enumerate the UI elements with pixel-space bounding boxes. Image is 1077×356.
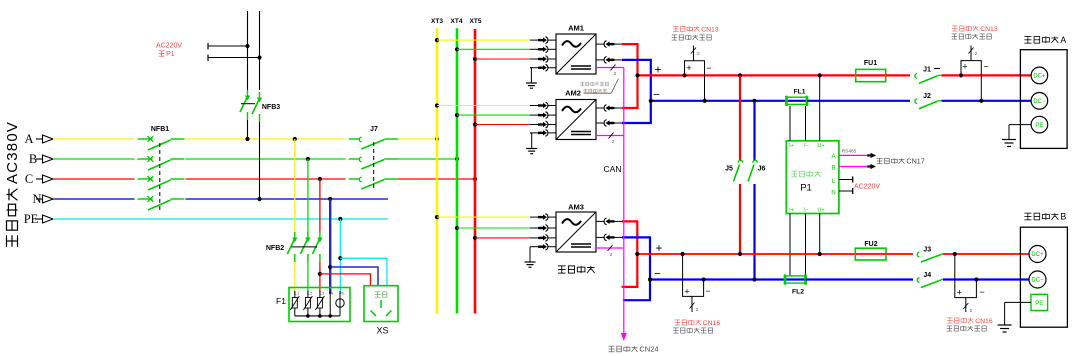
label RS485 [842,149,857,155]
svg-text:NFB1: NFB1 [151,126,169,133]
breaker NFB1 label [151,126,169,133]
gun B DC+ terminal [1029,246,1046,263]
AM2 DC- output connector [596,120,622,127]
DC+ wire J3 to gun B [943,252,1029,256]
surge protector F1 box [289,288,350,322]
svg-text:A: A [831,154,835,160]
contactor J5 [734,75,743,254]
DC- bus B [648,277,806,281]
converter AM2 label [565,89,581,98]
svg-text:+: + [686,63,691,73]
ground gun A [1002,140,1016,147]
label charging modules 充电模块 [558,266,595,273]
wire phase A to J7 [186,138,346,140]
wire RS485 B [839,164,876,169]
svg-text:B: B [831,166,835,172]
svg-text:−: − [706,63,711,73]
converter AM1 label [568,24,584,33]
wire NFB3 left to phase A [245,120,249,141]
svg-text:+: + [962,62,967,72]
breaker NFB1 pole N [138,196,185,210]
wire AM3 red output [622,221,638,287]
breaker NFB2 label [266,245,284,252]
wire phase C input [53,178,135,180]
svg-text:DC+: DC+ [1031,252,1044,258]
breaker NFB2 pole L1 [287,232,297,262]
DC- wire J2 to gun A [942,99,1032,103]
svg-text:NFB2: NFB2 [266,245,284,252]
svg-text:FU1: FU1 [864,60,877,67]
label CAN [604,164,622,174]
svg-text:+: + [957,288,962,298]
svg-text:−: − [705,286,710,296]
wire phase B J7 to XT4 [398,157,459,161]
wire meter U+ bottom [819,214,821,255]
label AC220V to P1 [156,43,182,59]
bus B voltage sense tap [683,254,711,312]
svg-text:XS: XS [376,326,388,336]
svg-text:−: − [979,287,984,297]
DC+ bus A [635,73,855,77]
ground AM3 [525,262,536,267]
wire NFB3 left vertical upper [247,11,249,90]
wire AM1 phase tap 2 [455,46,556,53]
DC- bus A [649,99,807,103]
wire AM3 blue output [622,237,650,300]
AM3 DC- output connector [596,234,622,241]
charging gun B label 充电枪B [1024,212,1066,222]
svg-text:C: C [25,172,33,186]
wire AM3 phase tap 2 [455,225,556,232]
contactor J4 [917,278,943,288]
svg-text:I−: I− [804,208,809,214]
svg-text:+: + [656,243,663,255]
bus A voltage sense tap [685,46,712,101]
wire red branch to XS [320,274,371,286]
F1 neutral lead [329,291,331,316]
svg-text:−: − [654,269,661,281]
contactor J7 pole C [349,177,399,189]
label + bus A [655,65,662,77]
converter AM1 [556,34,596,74]
svg-text:+: + [655,65,662,77]
svg-text:L1: L1 [295,291,300,296]
ground gun B [998,325,1012,332]
svg-text:NFB3: NFB3 [262,104,280,111]
svg-text:FU2: FU2 [864,241,877,248]
contactor J6 [748,101,757,280]
wire AM2 phase tap 1 [435,102,556,109]
svg-text:AM1: AM1 [568,24,584,33]
breaker NFB3 label [262,104,280,111]
gun B PE wire [1005,302,1031,325]
fuse FU1 label [864,60,877,67]
contactor J1 [915,74,942,84]
label to power board CN16 gun B [947,318,993,325]
svg-text:J3: J3 [923,247,931,254]
wire AM2 red output [622,75,638,108]
varistor F1-L2 [303,291,312,316]
breaker NFB1 link [159,143,161,210]
wire neutral N after NFB1 [186,198,389,200]
meter P1 terminals text top [789,143,824,149]
wire phase A input [53,138,135,140]
svg-text:+: + [684,287,689,297]
label AC220V meter [854,184,880,191]
wire yellow NFB2 to F1 [294,262,296,292]
wire meter L terminal [839,177,853,183]
varistor F1-L1 [290,291,299,316]
contactor J2 label [923,93,931,100]
svg-text:CN16: CN16 [703,320,721,327]
svg-text:P1: P1 [800,183,812,194]
wire RS485 A [839,153,876,158]
shunt FL2 [785,274,807,284]
wire blue branch to XS [328,265,378,286]
wire meter I- top [805,106,807,141]
gun B PE terminal [1031,294,1048,310]
AM1 DC+ output connector [596,41,622,48]
svg-text:PE: PE [1035,301,1043,307]
node phase C drop [318,177,322,181]
svg-text:I+: I+ [789,208,794,214]
breaker NFB1 pole A [138,136,185,150]
wire meter U+ top [819,75,821,140]
contactor J3 label [923,247,931,254]
svg-text:DC+: DC+ [1033,74,1046,80]
svg-text:L3: L3 [320,291,325,296]
gun A battery voltage sense tap [961,46,989,101]
meter P1 box [786,141,839,214]
surge protector F1 label [276,296,286,306]
varistor F1-L3 [315,291,324,316]
wire AM1 red output [622,44,638,75]
gun A DC+ terminal [1031,67,1048,84]
svg-text:F1: F1 [276,296,286,306]
svg-text:A: A [24,132,33,146]
shunt FL2 label [792,289,804,296]
converter AM3 [556,212,596,252]
label to master CN17 [877,157,925,166]
contactor J4 label [923,272,931,279]
svg-text:J1: J1 [923,67,931,74]
wire AM1 ground lead [530,64,556,83]
breaker NFB3 pole 1 [240,90,250,120]
svg-text:AC220V: AC220V [854,184,880,191]
DC+ wire FU1 to J1 [886,74,910,76]
breaker NFB2 link [292,246,318,248]
fuse FU2 label [864,241,877,248]
wire AM3 ground lead [530,243,556,262]
svg-text:J4: J4 [923,272,931,279]
contactor J7 label [370,126,378,133]
wire red drop to NFB2 [319,179,321,233]
svg-text:FL2: FL2 [792,289,804,296]
wire AM1 phase tap 3 [473,56,556,63]
gun B DC- terminal [1029,271,1046,288]
wire red NFB2 to F1 [318,262,322,292]
wire AM2 blue output [622,100,651,123]
breaker NFB3 pole 2 [252,92,262,122]
label mains input 市电输入AC380V [4,121,21,247]
wire cyan PE drop [339,219,341,294]
input terminal A [24,132,53,146]
socket XS label 插座 [375,292,387,297]
node PE drop [338,217,342,221]
svg-text:XT5: XT5 [470,18,482,25]
socket XS box [364,286,398,322]
wire yellow drop to NFB2 [294,139,296,233]
svg-text:N: N [331,291,334,296]
breaker NFB1 pole B [138,156,185,170]
wire meter I+ top [789,106,791,141]
fuse FU1 [856,69,886,81]
contactor J2 [915,99,942,109]
svg-text:N: N [831,191,835,197]
label to power board CN13 gun A [952,26,998,33]
input terminal N [32,192,53,206]
wire neutral N input [53,198,135,200]
label to power board CN13 bus A [673,26,719,33]
wire AM2 phase tap 2 [455,112,556,119]
svg-text:RS485: RS485 [842,149,857,155]
label to power board CN16 bus B [675,320,721,327]
svg-text:J2: J2 [923,93,931,100]
converter AM2 [556,100,596,140]
contactor J7 pole A [349,137,399,149]
F1 common bar [295,314,340,318]
gun A DC- terminal [1031,93,1048,110]
svg-text:CAN: CAN [604,164,622,174]
svg-text:J6: J6 [758,166,766,173]
ground AM1 [526,83,537,88]
wire AM1 CAN [596,65,624,77]
AM2 DC+ output connector [596,105,622,112]
svg-text:P1: P1 [166,51,175,58]
label + bus B [656,243,663,255]
wire AM1 phase tap 1 [435,37,556,44]
svg-text:I+: I+ [789,143,794,149]
DC- wire FL1 to J2 [807,100,910,102]
svg-text:AC380V: AC380V [4,121,21,184]
breaker NFB3 link [241,103,255,105]
bus labels XT3 XT4 XT5 [431,18,482,25]
node neutral drop [328,197,332,201]
contactor J3 [917,252,943,262]
wire green NFB2 to F1 [307,262,309,292]
input terminal PE [24,212,53,226]
bus XT4 green [456,28,459,313]
converter AM3 label [568,203,584,212]
breaker NFB2 pole L2 [300,232,310,262]
contactor J7 pole B [349,157,399,169]
socket XS name [376,326,388,336]
wire PE input [53,218,388,220]
svg-text:B: B [29,152,37,166]
svg-text:XT4: XT4 [451,18,463,25]
wire AM1 blue output [622,60,651,100]
shunt FL1 [786,96,808,106]
label to master CN24 [609,345,659,354]
gun B battery voltage sense tap [955,254,985,313]
socket XS pins [371,300,392,316]
svg-text:U+: U+ [817,143,824,149]
svg-text:CN13: CN13 [980,26,998,33]
svg-text:J5: J5 [725,166,733,173]
svg-text:L2: L2 [308,291,313,296]
wire NFB3 right vertical upper [259,11,261,90]
wire meter I+ bottom [789,214,791,277]
svg-text:DC−: DC− [1033,99,1046,105]
DC- wire FL2 to J4 [806,278,914,280]
svg-text:CN17: CN17 [906,157,924,166]
AM3 DC+ output connector [596,218,622,225]
meter side labels A B L N [831,154,836,197]
wire meter N terminal [839,188,853,194]
svg-text:B: B [1060,212,1066,222]
svg-text:XT3: XT3 [431,18,443,25]
wire meter I- bottom [805,214,807,277]
wire green drop to NFB2 [307,159,309,233]
wire phase C to J7 [186,178,346,180]
wire AM2 ground lead [530,130,556,149]
terminal AC220V line 1 [208,43,250,50]
bus XT3 yellow [436,28,439,313]
CAN bus vertical [621,68,627,342]
wire phase B input [53,158,135,160]
ground AM2 [526,149,537,154]
svg-text:FL1: FL1 [793,89,805,96]
shunt FL1 label [793,89,805,96]
svg-text:U+: U+ [817,208,824,214]
wire phase C J7 to XT5 [398,177,477,181]
label - bus B [654,269,661,281]
wire AM3 phase tap 1 [435,214,556,221]
DC+ bus B [635,252,855,256]
wire phase A J7 to XT3 [398,137,439,141]
contactor J5 label [725,166,733,173]
meter P1 designator [800,183,812,194]
wire AM2 CAN [596,133,624,145]
wire AM2 phase tap 3 [473,121,556,128]
meter P1 name 直流电表 [791,171,820,177]
svg-text:I−: I− [804,143,809,149]
label - bus A [653,90,660,102]
svg-text:PE: PE [1035,123,1043,129]
terminal AC220V line 2 [208,55,262,62]
wire AM3 phase tap 3 [473,235,556,242]
F1 terminal labels L1 L2 L3 N PE [295,291,345,296]
gas tube F1 PE [336,291,344,316]
wire blue neutral drop [329,199,331,294]
svg-text:AM3: AM3 [568,203,584,212]
svg-text:−: − [653,90,660,102]
node phase A drop [293,137,297,141]
DC- wire J4 to gun B [943,277,1029,281]
svg-text:A: A [1060,35,1066,45]
svg-text:AM2: AM2 [565,89,581,98]
input terminal C [25,172,53,186]
contactor J6 label [758,166,766,173]
DC+ wire J1 to gun A [942,73,1032,77]
wire cyan branch to XS [338,256,387,286]
wire phase B to J7 [186,158,346,160]
wire AM3 CAN [595,245,623,257]
contactor J1 label [923,67,940,74]
AM1 DC- output connector [596,57,622,64]
CAN annotation text [580,82,608,93]
svg-text:AC220V: AC220V [156,43,182,50]
svg-text:−: − [983,62,988,72]
svg-text:CN16: CN16 [975,318,993,325]
charging gun A box [1020,50,1067,149]
svg-text:CN13: CN13 [701,26,719,33]
CAN annotation leader [584,79,619,94]
node phase B drop [306,157,310,161]
svg-text:J7: J7 [370,126,378,133]
wire NFB3 right to neutral [257,122,261,201]
breaker NFB2 pole L3 [312,232,322,262]
charging gun A label 充电枪A [1024,35,1066,45]
input terminal B [29,152,53,166]
meter P1 terminals text bottom [789,208,824,214]
gun A PE wire [1009,125,1031,140]
charging gun B box [1020,227,1067,327]
contactor J7 link [373,142,375,188]
bus XT5 red [474,29,477,314]
DC+ wire FU2 to J3 [886,253,913,255]
svg-text:CN24: CN24 [639,345,658,354]
svg-text:DC−: DC− [1031,278,1044,284]
gun A PE terminal [1031,116,1048,133]
breaker NFB1 pole C [138,176,185,190]
fuse FU2 [855,248,886,260]
